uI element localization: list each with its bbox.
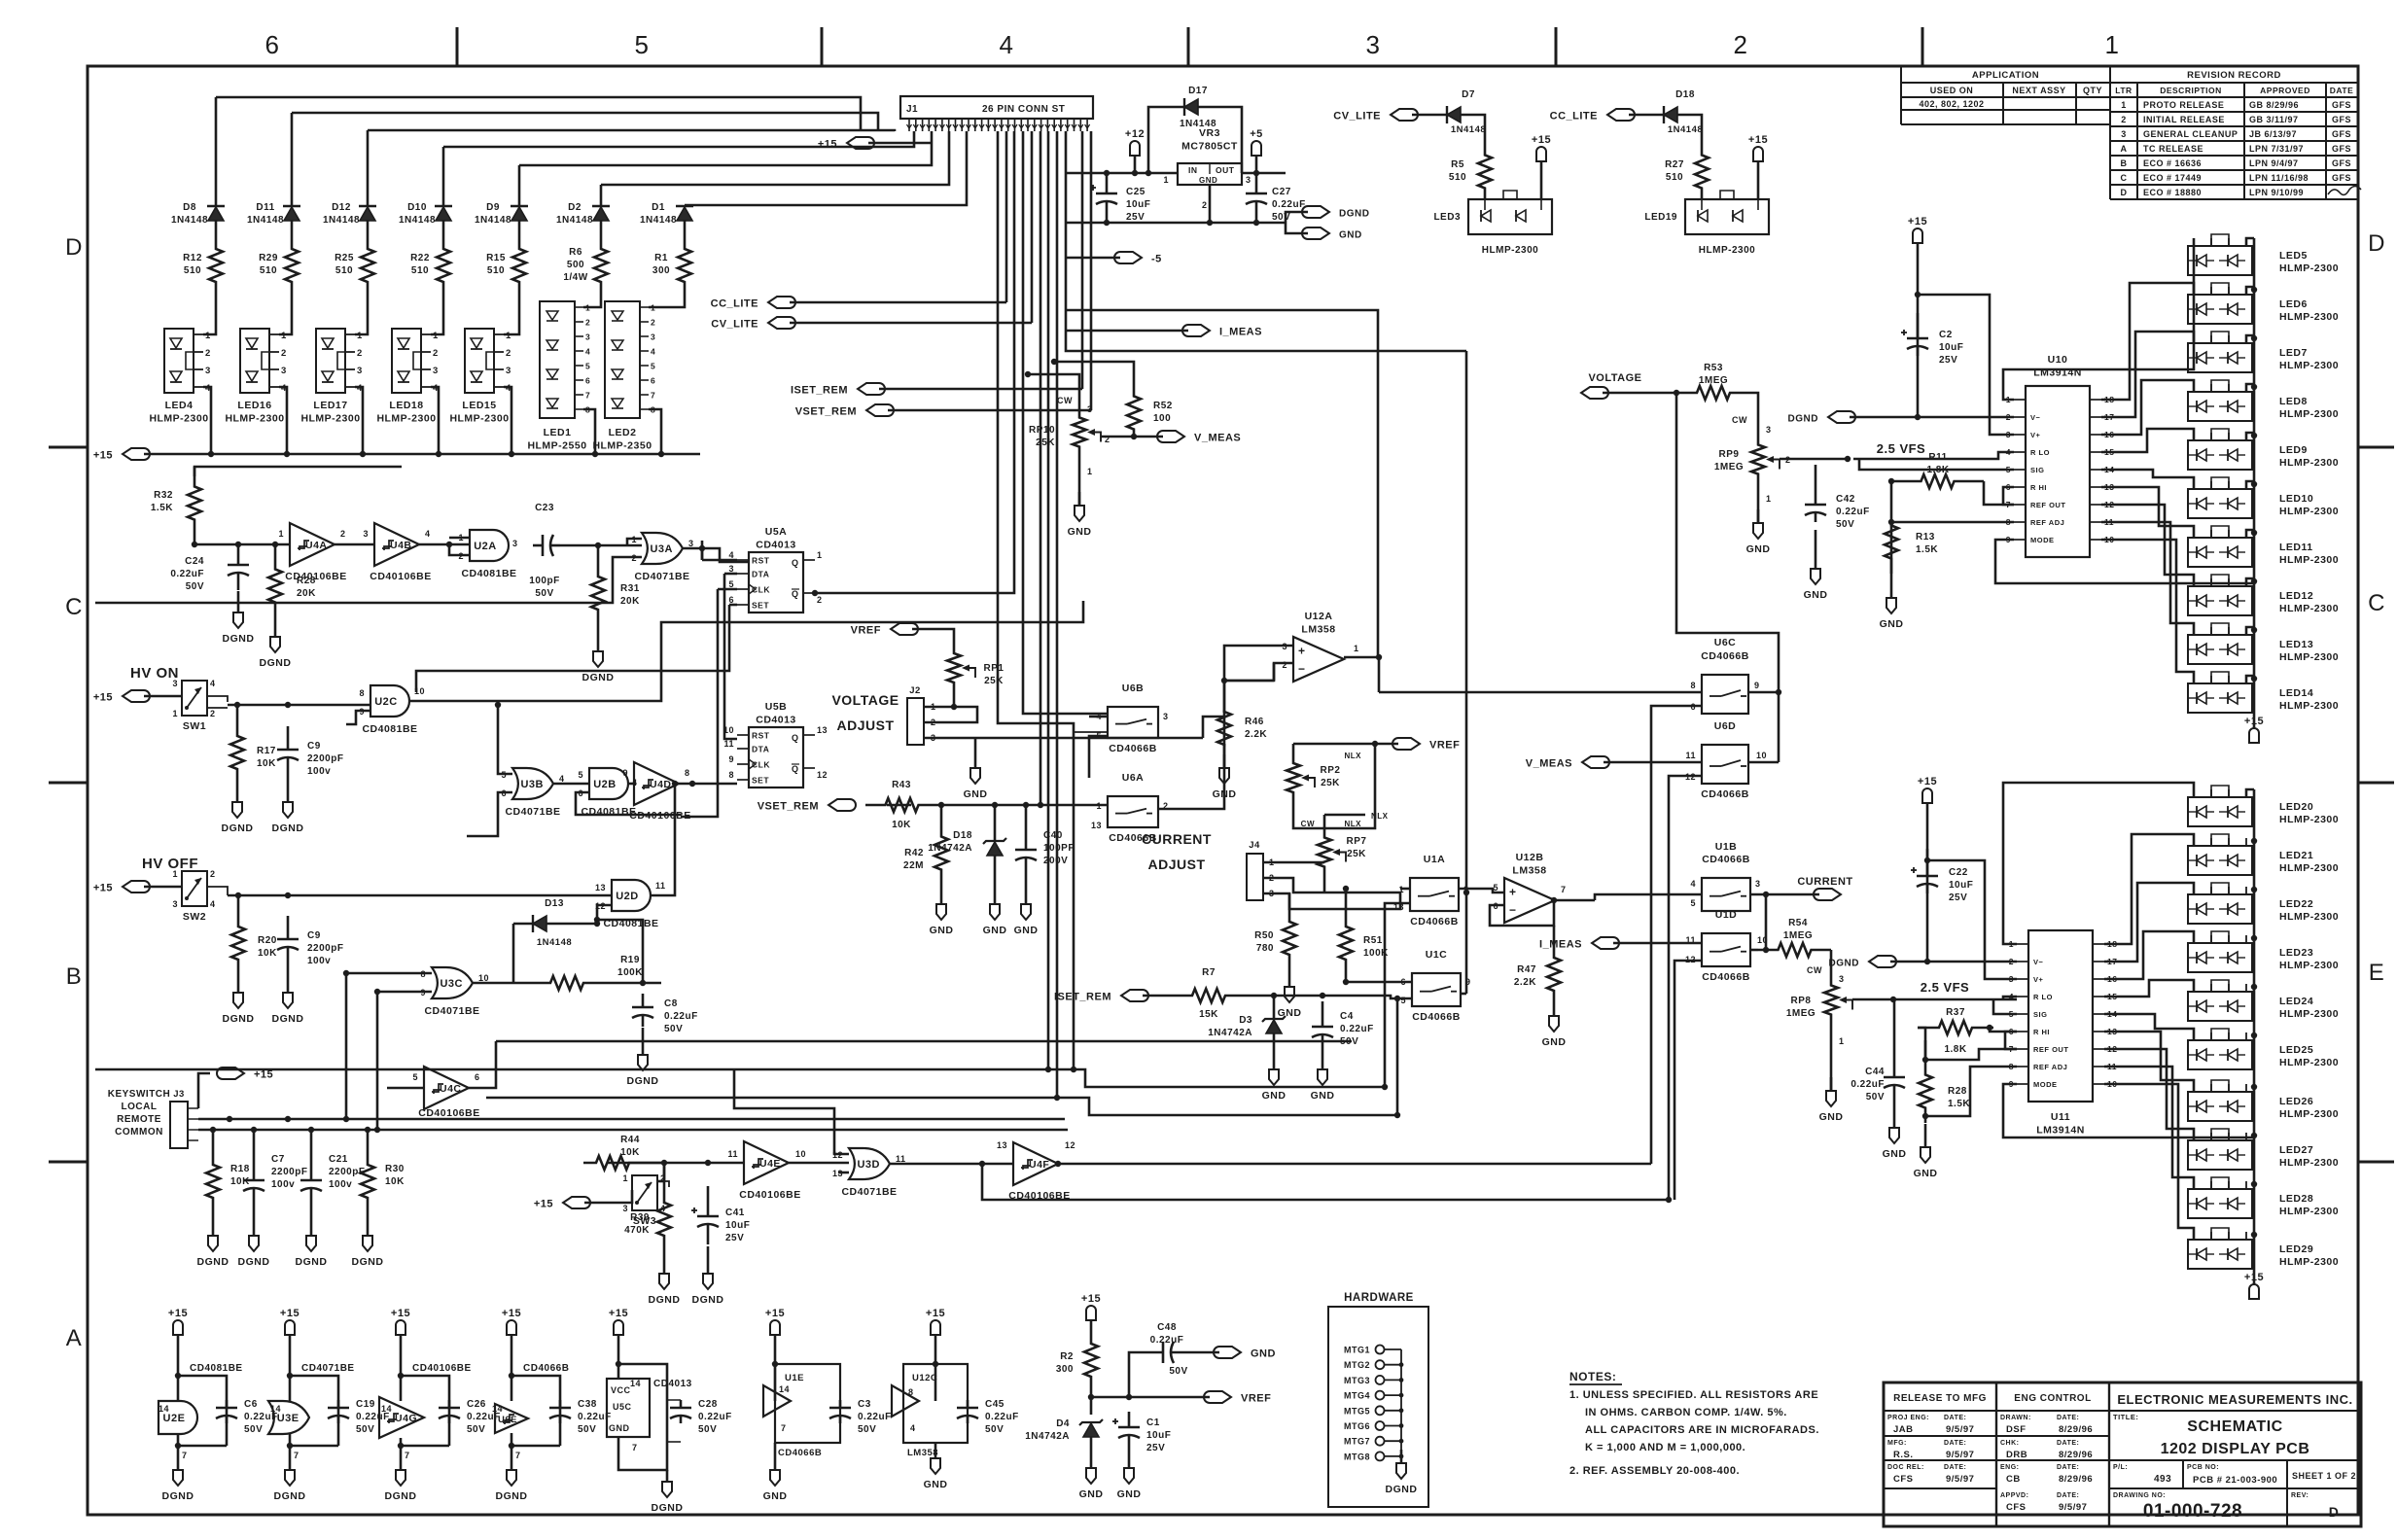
svg-text:+15: +15 [2244,716,2264,727]
+5 power [1250,128,1263,173]
svg-text:HLMP-2300: HLMP-2300 [2279,1057,2339,1068]
svg-text:1.5K: 1.5K [1916,544,1938,555]
svg-text:DGND: DGND [385,1490,417,1502]
wire net J1 to D10 [442,147,445,206]
svg-text:R LO: R LO [2030,448,2050,457]
svg-text:1MEG: 1MEG [1786,1008,1815,1019]
svg-text:DGND: DGND [352,1256,384,1268]
svg-text:LTR: LTR [2115,86,2132,95]
svg-text:13: 13 [1091,821,1102,830]
svg-text:4: 4 [910,1423,916,1433]
svg-text:MTG6: MTG6 [1344,1421,1370,1431]
svg-text:14: 14 [630,1379,641,1388]
svg-text:REF ADJ: REF ADJ [2030,518,2064,527]
resistor R28 [268,542,316,612]
svg-text:D18: D18 [1675,89,1695,100]
svg-text:-5: -5 [1151,254,1162,265]
svg-text:DGND: DGND [1339,209,1369,220]
LED package LED12 [2188,575,2339,615]
svg-text:DATE:: DATE: [2057,1415,2079,1421]
ground RP9 [1746,491,1771,555]
svg-text:8: 8 [728,770,734,780]
svg-text:4: 4 [210,679,216,688]
svg-text:50V: 50V [1836,519,1854,530]
svg-text:DATE:: DATE: [2057,1440,2079,1447]
svg-text:11: 11 [1685,751,1696,760]
svg-text:C9: C9 [307,930,321,941]
svg-text:SCHEMATIC: SCHEMATIC [2187,1418,2282,1435]
svg-text:R20: R20 [258,935,277,946]
svg-text:1: 1 [817,550,823,560]
svg-text:1.8K: 1.8K [1944,1044,1966,1055]
svg-text:50V: 50V [858,1424,876,1435]
svg-text:GND: GND [609,1423,630,1433]
svg-text:510: 510 [184,265,201,276]
svg-text:GND: GND [1914,1168,1938,1179]
+15 to U10 [1908,216,2014,435]
svg-text:U4B: U4B [390,540,412,551]
svg-text:COMMON: COMMON [115,1127,163,1137]
buffer U4D [622,762,737,822]
svg-text:25K: 25K [1347,849,1366,859]
GND flag top [1286,223,1362,241]
op-amp U12B [1459,852,1595,926]
svg-text:LED26: LED26 [2279,1096,2313,1107]
diode D17 [1148,86,1242,173]
part R30 [352,1130,405,1268]
svg-text:CD4013: CD4013 [756,540,796,551]
CC_LITE flag [711,297,1006,310]
svg-text:10: 10 [795,1149,806,1159]
connector J4 [1247,840,1275,900]
I_MEAS flag 2 [1539,937,1702,951]
svg-text:R30: R30 [385,1164,405,1174]
svg-text:LED9: LED9 [2279,444,2308,456]
svg-text:R HI: R HI [2030,483,2047,492]
+15 keyswitch [198,1067,273,1108]
LED package LED6 [2188,283,2339,324]
svg-text:1: 1 [506,331,511,341]
CV_LITE flag [711,317,1032,331]
svg-text:HLMP-2300: HLMP-2300 [2279,360,2339,371]
LED package LED2 [592,292,685,457]
svg-text:CHK:: CHK: [2000,1440,2020,1447]
svg-text:VOLTAGE: VOLTAGE [1588,372,1641,384]
spare gate U6E [492,1308,612,1502]
svg-text:PROTO RELEASE: PROTO RELEASE [2143,100,2224,110]
svg-text:D9: D9 [486,202,500,213]
+15 to U11 [1918,776,2017,979]
svg-text:300: 300 [652,265,670,276]
svg-text:11: 11 [727,1149,738,1159]
svg-text:U4F: U4F [1029,1159,1049,1171]
svg-text:I_MEAS: I_MEAS [1219,327,1262,338]
svg-text:GND: GND [1014,925,1039,936]
svg-text:8: 8 [908,1387,914,1397]
svg-text:MTG4: MTG4 [1344,1391,1370,1401]
wire R53 to RP9 [1750,393,1758,428]
svg-text:CD4066B: CD4066B [1701,788,1749,800]
diode D11 [247,202,300,226]
svg-text:510: 510 [1666,172,1683,183]
svg-text:U12A: U12A [1305,611,1333,622]
svg-text:C45: C45 [985,1399,1005,1410]
svg-text:CD4081BE: CD4081BE [461,568,516,579]
svg-text:C4: C4 [1340,1011,1354,1022]
svg-text:3: 3 [2006,430,2011,439]
buffer U4F [997,1140,1075,1202]
svg-text:50V: 50V [356,1424,374,1435]
svg-text:DGND: DGND [649,1294,681,1306]
AND gate U2C [346,685,425,735]
svg-text:10K: 10K [620,1147,640,1158]
resistor R37 [1918,1007,1993,1060]
svg-text:CD4066B: CD4066B [1410,916,1459,927]
svg-text:1N4148: 1N4148 [247,215,284,226]
svg-text:CD4066B: CD4066B [523,1363,569,1374]
svg-text:J1: J1 [906,104,918,115]
wire U10 outputs to LEDs [2003,238,2194,683]
svg-text:VREF: VREF [851,625,881,637]
svg-text:1.5K: 1.5K [151,503,173,513]
svg-text:3: 3 [2121,129,2127,139]
wire net J1 to D8 [215,97,218,206]
svg-text:100: 100 [1153,413,1171,424]
OR gate U3A [95,533,694,603]
svg-text:C9: C9 [307,741,321,752]
svg-text:GFS: GFS [2332,173,2351,183]
svg-text:CB: CB [2006,1474,2021,1485]
LED package LED10 [2188,477,2339,518]
svg-text:MTG7: MTG7 [1344,1437,1370,1447]
wire SW3 out [607,1163,664,1181]
svg-text:1: 1 [622,1173,628,1183]
svg-text:Q: Q [792,589,799,599]
svg-text:LED23: LED23 [2279,947,2313,959]
switch SW2 [172,869,228,923]
svg-text:HLMP-2300: HLMP-2300 [2279,1206,2339,1217]
svg-text:100K: 100K [617,967,643,978]
diode D8 [171,202,225,226]
svg-text:C40: C40 [1043,830,1063,841]
svg-text:2200pF: 2200pF [307,943,343,954]
svg-text:RST: RST [752,556,770,566]
VOLTAGE ADJUST label [831,692,899,733]
svg-text:CV_LITE: CV_LITE [711,319,758,331]
svg-text:1N4148: 1N4148 [399,215,436,226]
svg-text:5: 5 [1690,898,1696,908]
svg-text:1N4148: 1N4148 [475,215,511,226]
svg-text:REVISION RECORD: REVISION RECORD [2187,70,2281,81]
wire RP9 wiper 2.5 VFS [1780,441,1925,462]
svg-text:0.22uF: 0.22uF [858,1412,892,1422]
svg-text:VSET_REM: VSET_REM [795,406,857,418]
resistor R19 [473,955,661,990]
svg-text:D13: D13 [545,898,564,909]
svg-text:LED17: LED17 [313,400,347,411]
svg-text:NLX: NLX [1345,820,1362,828]
wire net J1 to D11 [291,113,294,206]
svg-text:REMOTE: REMOTE [117,1114,161,1125]
svg-text:14: 14 [159,1404,169,1414]
buffer U4B [363,523,431,582]
svg-text:GND: GND [1262,1090,1287,1102]
svg-text:DGND: DGND [627,1075,659,1087]
svg-text:+: + [1509,886,1517,899]
svg-text:Q: Q [792,764,799,774]
svg-text:LED25: LED25 [2279,1044,2313,1056]
svg-text:Q: Q [792,733,799,743]
svg-text:2200pF: 2200pF [307,753,343,764]
svg-text:14: 14 [492,1404,503,1414]
svg-text:2. REF. ASSEMBLY 20-008-400.: 2. REF. ASSEMBLY 20-008-400. [1569,1465,1740,1477]
svg-text:1MEG: 1MEG [1699,375,1728,386]
resistor R7 [1175,967,1412,1020]
svg-text:DATE:: DATE: [2057,1464,2079,1471]
svg-text:HLMP-2300: HLMP-2300 [300,413,360,425]
svg-text:CD40106BE: CD40106BE [629,810,690,822]
resistor R46 [1213,678,1268,800]
svg-text:+15: +15 [93,692,113,704]
svg-text:1N4742A: 1N4742A [928,843,972,854]
svg-text:GFS: GFS [2332,100,2351,110]
svg-text:DGND: DGND [496,1490,528,1502]
svg-text:0.22uF: 0.22uF [664,1011,698,1022]
svg-text:LED6: LED6 [2279,298,2308,310]
svg-text:CD4066B: CD4066B [1109,743,1157,754]
svg-text:3: 3 [205,366,211,376]
svg-text:HLMP-2300: HLMP-2300 [2279,960,2339,971]
DGND flag U10 [1788,411,2014,425]
svg-text:VCC: VCC [611,1385,631,1395]
switch SW1 [172,679,228,732]
svg-text:DATE:: DATE: [2057,1492,2079,1499]
svg-text:25V: 25V [1146,1443,1165,1453]
svg-text:2200pF: 2200pF [329,1167,365,1177]
svg-text:HLMP-2300: HLMP-2300 [2279,651,2339,663]
flip-flop U5B CD4013 [723,701,828,787]
svg-text:R17: R17 [257,746,276,756]
svg-text:CURRENT: CURRENT [1797,876,1852,888]
capacitor C22 [1911,849,1973,903]
svg-text:470K: 470K [624,1225,650,1236]
diode D9 [475,202,528,226]
svg-text:LM358: LM358 [1301,624,1335,636]
svg-text:R43: R43 [892,780,911,790]
LED package LED16 [225,292,292,457]
svg-text:INITIAL RELEASE: INITIAL RELEASE [2143,115,2225,124]
svg-text:3: 3 [728,564,734,574]
wire net J1 to D12 [367,130,370,206]
wire U4A-U4B [335,543,374,546]
svg-text:R42: R42 [904,848,924,858]
svg-text:+15: +15 [534,1199,553,1210]
svg-text:0.22uF: 0.22uF [698,1412,732,1422]
svg-text:1202 DISPLAY PCB: 1202 DISPLAY PCB [2161,1441,2310,1457]
svg-text:GND: GND [1213,788,1237,800]
svg-text:3: 3 [2009,974,2014,984]
svg-text:50V: 50V [467,1424,485,1435]
svg-text:DGND: DGND [272,822,304,834]
svg-text:9: 9 [1754,681,1760,690]
svg-text:780: 780 [1256,943,1274,954]
IC U10 LM3914N [2006,354,2115,557]
svg-text:U1D: U1D [1715,909,1738,921]
svg-text:LED8: LED8 [2279,396,2308,407]
svg-text:U6C: U6C [1714,637,1737,648]
svg-text:CD4013: CD4013 [756,715,796,726]
svg-text:HLMP-2300: HLMP-2300 [2279,311,2339,323]
svg-text:OUT: OUT [1216,165,1235,175]
svg-text:3: 3 [1163,712,1169,721]
svg-text:C6: C6 [244,1399,258,1410]
svg-text:DATE:: DATE: [1944,1440,1966,1447]
svg-text:P/L:: P/L: [2113,1464,2128,1471]
svg-text:IN OHMS. CARBON COMP. 1/4W. 5: IN OHMS. CARBON COMP. 1/4W. 5%. [1585,1407,1787,1418]
2.5 VFS net bottom [1893,980,2017,999]
svg-text:GND: GND [1079,1488,1104,1500]
svg-text:SW1: SW1 [183,720,206,732]
svg-text:LM358: LM358 [1512,865,1546,877]
switch SW3 [622,1173,669,1227]
svg-text:TITLE:: TITLE: [2113,1413,2138,1421]
svg-text:CD4013: CD4013 [653,1379,692,1389]
svg-text:CD4071BE: CD4071BE [634,571,689,582]
capacitor C48 [1129,1322,1276,1397]
svg-text:MC7805CT: MC7805CT [1181,141,1238,153]
svg-text:0.22uF: 0.22uF [985,1412,1019,1422]
svg-text:510: 510 [487,265,505,276]
svg-text:KEYSWITCH: KEYSWITCH [108,1089,171,1100]
resistor R25 [335,220,374,292]
svg-text:LPN 9/10/99: LPN 9/10/99 [2249,188,2304,197]
LED package LED3 [1433,191,1552,256]
svg-text:3: 3 [585,332,590,342]
svg-text:12: 12 [1065,1140,1075,1150]
svg-text:GND: GND [1746,543,1771,555]
svg-text:CD4066B: CD4066B [778,1448,822,1458]
svg-text:50V: 50V [1169,1366,1187,1377]
LED package LED9 [2188,429,2339,470]
svg-text:LED14: LED14 [2279,687,2313,699]
svg-text:HLMP-2300: HLMP-2300 [2279,1256,2339,1268]
svg-text:LED12: LED12 [2279,590,2313,602]
svg-text:9/5/97: 9/5/97 [1946,1474,1974,1485]
revision record table [2110,66,2361,199]
svg-text:U3C: U3C [440,978,463,990]
svg-text:510: 510 [1449,172,1466,183]
VOLTAGE flag [1581,372,1781,762]
CC_LITE flag right [1550,109,1664,122]
svg-text:HLMP-2300: HLMP-2300 [2279,1008,2339,1020]
svg-text:2: 2 [210,709,216,718]
svg-text:C7: C7 [271,1154,285,1165]
svg-text:HLMP-2300: HLMP-2300 [2279,700,2339,712]
-5 flag [1066,252,1162,265]
svg-text:10: 10 [414,686,425,696]
svg-text:LM3914N: LM3914N [2036,1125,2085,1137]
svg-text:6: 6 [728,595,734,605]
svg-text:CURRENT: CURRENT [1142,831,1212,847]
svg-text:I_MEAS: I_MEAS [1539,939,1582,951]
svg-text:CC_LITE: CC_LITE [711,298,758,310]
svg-text:LPN 9/4/97: LPN 9/4/97 [2249,158,2299,168]
svg-text:GFS: GFS [2332,144,2351,154]
svg-text:U12B: U12B [1516,852,1544,863]
capacitor C42 [1804,465,1870,601]
analog switch U1D [1674,909,1769,1200]
svg-text:1N4742A: 1N4742A [1025,1431,1070,1442]
svg-text:D18: D18 [953,830,972,841]
svg-text:A: A [66,1325,83,1351]
svg-text:USED ON: USED ON [1930,86,1974,95]
svg-text:PROJ ENG:: PROJ ENG: [1887,1415,1929,1421]
svg-text:2: 2 [817,595,823,605]
svg-text:3: 3 [363,529,369,539]
connector J1 [900,96,1093,131]
wire U11 outputs to LEDs [2003,783,2194,1240]
svg-text:CD40106BE: CD40106BE [412,1363,472,1374]
svg-text:4: 4 [425,529,431,539]
OR gate U3D [734,1069,906,1198]
resistor R17 [222,705,277,834]
svg-text:GND: GND [983,925,1007,936]
svg-text:J4: J4 [1249,840,1260,851]
application table [1901,66,2110,124]
svg-text:APPLICATION: APPLICATION [1972,70,2039,81]
svg-text:U2A: U2A [474,541,497,552]
+15 bottom of bottom bank [2244,1272,2264,1299]
svg-text:DGND: DGND [1788,414,1818,425]
svg-text:R54: R54 [1788,918,1808,928]
analog switch U1B [1690,841,1819,950]
diode D7 [1447,89,1486,144]
svg-text:25V: 25V [1939,355,1957,366]
svg-text:+15: +15 [1908,216,1927,227]
capacitor C27 [1246,173,1306,223]
wire to U1B [1595,894,1702,900]
svg-text:1. UNLESS SPECIFIED. ALL RESIS: 1. UNLESS SPECIFIED. ALL RESISTORS ARE [1569,1389,1818,1401]
long control buses [95,1041,1672,1203]
svg-text:DGND: DGND [223,1013,255,1025]
svg-text:1MEG: 1MEG [1783,930,1813,941]
svg-text:GND: GND [964,788,988,800]
resistor R12 [183,220,223,292]
svg-text:4: 4 [651,347,655,357]
svg-text:4: 4 [1000,30,1014,59]
svg-text:100PF: 100PF [1043,843,1075,854]
wire U2C out [409,601,1083,701]
svg-text:5: 5 [651,362,655,371]
svg-text:HLMP-2300: HLMP-2300 [1482,245,1538,256]
LED package LED7 [2188,332,2339,372]
svg-text:R13: R13 [1916,532,1935,542]
svg-text:6: 6 [585,376,590,386]
svg-text:RP2: RP2 [1321,765,1341,776]
svg-text:9: 9 [728,754,734,764]
svg-text:+15: +15 [1081,1293,1101,1305]
svg-text:GND: GND [1542,1036,1567,1048]
svg-text:2: 2 [205,348,211,359]
svg-text:DRB: DRB [2006,1450,2027,1460]
svg-text:100v: 100v [307,956,331,966]
svg-text:25V: 25V [725,1233,744,1243]
svg-text:U5A: U5A [765,526,788,538]
resistor R29 [259,220,299,292]
+15 SW3 [534,1190,632,1210]
svg-text:CD4071BE: CD4071BE [301,1363,355,1374]
svg-text:CD40106BE: CD40106BE [418,1107,479,1119]
